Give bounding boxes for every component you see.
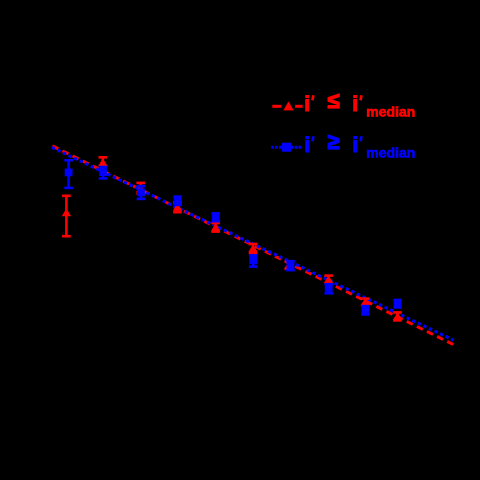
blue point 1 square marker	[65, 169, 73, 177]
red point 4 error bar	[173, 202, 182, 212]
svg-text:median: median	[366, 144, 415, 160]
legend red sample line left dash	[272, 105, 281, 108]
red point 6 error bar	[249, 244, 258, 253]
blue point 4 error bar	[173, 197, 182, 205]
red point 10 triangle marker	[393, 312, 402, 320]
red fit line (dashed)	[52, 146, 453, 345]
svg-text:median: median	[366, 103, 415, 119]
svg-text:i: i	[304, 93, 310, 116]
blue point 8 square marker	[325, 284, 333, 292]
legend blue square marker	[282, 143, 291, 152]
red point 8 triangle marker	[324, 275, 333, 283]
blue point 3 square marker	[137, 189, 145, 197]
blue point 3 error bar	[137, 186, 146, 199]
svg-text:i: i	[304, 134, 310, 157]
blue point 6 error bar	[249, 255, 258, 266]
blue point 8 error bar	[324, 284, 333, 293]
red point 7 error bar	[285, 262, 294, 269]
legend blue sample dotted line	[271, 146, 301, 149]
blue point 7 square marker	[287, 262, 295, 270]
svg-text:≥: ≥	[328, 129, 340, 154]
red point 5 triangle marker	[211, 223, 220, 231]
blue point 9 error bar	[361, 306, 370, 314]
blue point 5 square marker	[212, 213, 220, 221]
red point 1 error bar	[62, 196, 71, 236]
svg-text:i: i	[352, 134, 358, 157]
red point 2 triangle marker	[98, 158, 107, 166]
blue point 1 error bar	[64, 160, 73, 188]
red point 1 triangle marker	[62, 208, 71, 216]
svg-text:≤: ≤	[328, 88, 340, 113]
legend red label prime2	[359, 95, 362, 100]
red point 9 error bar	[361, 299, 370, 306]
legend red label prime	[311, 95, 314, 100]
svg-text:i: i	[352, 93, 358, 116]
blue point 7 error bar	[286, 261, 295, 270]
red point 2 error bar	[99, 157, 108, 166]
red point 3 error bar	[136, 183, 145, 194]
blue point 2 square marker	[99, 168, 107, 176]
blue point 10 square marker	[394, 300, 402, 308]
red point 9 triangle marker	[361, 298, 370, 306]
legend red sample line right dash	[295, 105, 302, 108]
blue point 10 error bar	[393, 300, 402, 307]
red point 10 error bar	[393, 312, 402, 320]
legend blue label prime2	[359, 136, 362, 141]
red point 4 triangle marker	[173, 203, 182, 211]
red point 5 error bar	[211, 223, 220, 232]
blue point 2 error bar	[99, 167, 108, 178]
blue point 6 square marker	[249, 256, 257, 264]
blue point 4 square marker	[174, 197, 182, 205]
blue point 9 square marker	[362, 305, 370, 313]
red point 7 triangle marker	[284, 261, 293, 269]
red point 6 triangle marker	[248, 244, 257, 252]
legend red triangle marker	[283, 101, 293, 110]
red point 8 error bar	[324, 276, 333, 283]
blue point 5 error bar	[212, 213, 221, 221]
legend blue label prime	[311, 136, 314, 141]
red point 3 triangle marker	[136, 184, 145, 192]
blue fit line (dotted)	[52, 147, 454, 340]
